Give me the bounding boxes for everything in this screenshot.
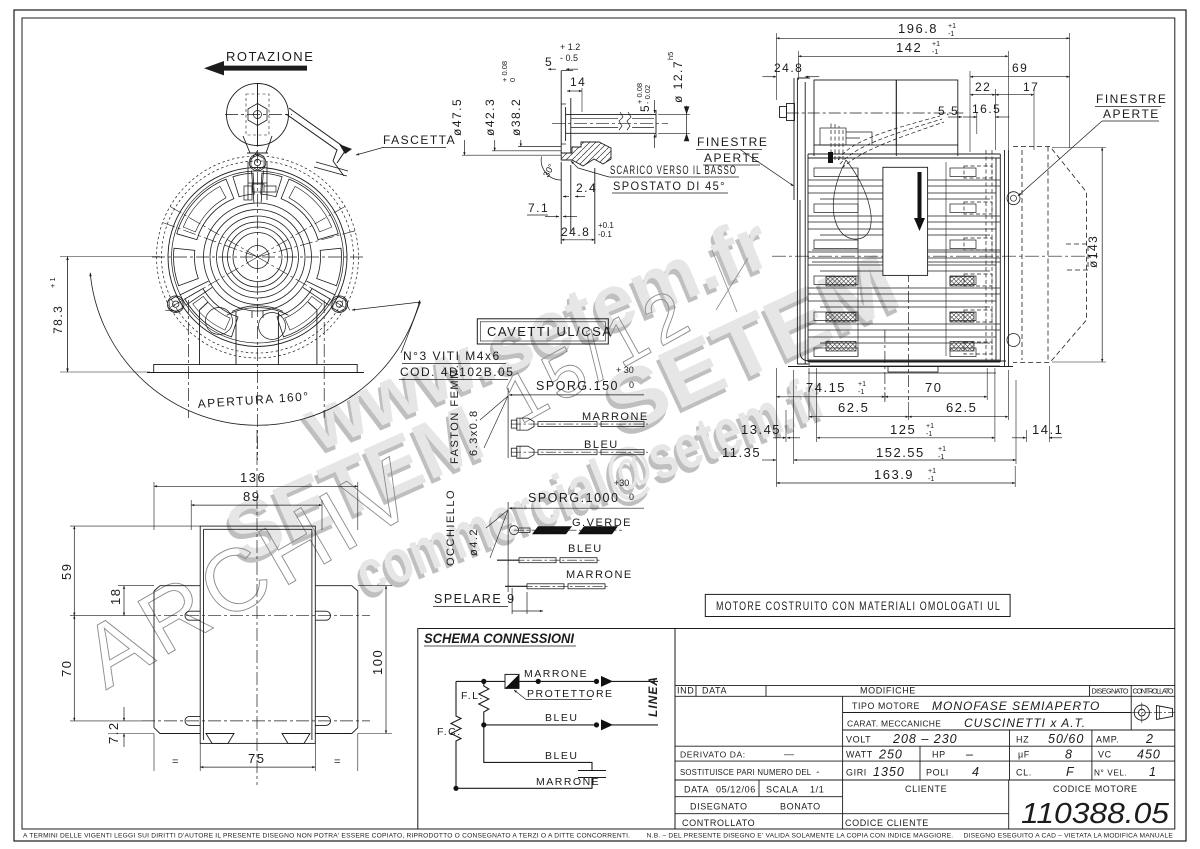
capacitor C1 top circle [227, 84, 353, 177]
svg-text:2: 2 [1145, 732, 1154, 746]
svg-text:125: 125 [890, 422, 916, 437]
svg-text:89: 89 [243, 489, 260, 504]
svg-text:-1: -1 [932, 49, 938, 56]
extension lines top dims [776, 33, 1069, 152]
svg-text:AMP.: AMP. [1096, 735, 1119, 745]
capacitor bracket to motor [243, 136, 272, 153]
base view body [154, 526, 358, 743]
svg-text:DISEGNATO: DISEGNATO [1092, 687, 1129, 696]
svg-text:CARAT. MECCANICHE: CARAT. MECCANICHE [847, 719, 941, 729]
svg-text:IND: IND [677, 686, 694, 696]
white rect window with arrow [883, 167, 928, 275]
svg-text:62.5: 62.5 [838, 400, 869, 415]
svg-text:FINESTRE: FINESTRE [1096, 92, 1167, 106]
svg-text:136: 136 [240, 470, 266, 485]
svg-text:-1: -1 [858, 389, 864, 396]
svg-text:-: - [816, 767, 820, 778]
watermark commercial@setem.fr [342, 362, 838, 615]
svg-text:-0.1: -0.1 [598, 230, 612, 239]
svg-text:ø143: ø143 [1086, 235, 1100, 268]
front screw [1007, 192, 1020, 205]
svg-text:=: = [334, 756, 340, 768]
svg-text:4: 4 [972, 765, 980, 779]
line arrows [601, 676, 613, 731]
svg-text:HZ: HZ [1016, 735, 1029, 745]
svg-text:MARRONE: MARRONE [524, 668, 588, 680]
svg-text:F: F [1066, 765, 1075, 779]
extension lines bottom dims [776, 366, 1049, 487]
stator fins [808, 162, 1000, 373]
cable bundle dashed [831, 116, 944, 168]
svg-text:+1: +1 [948, 23, 956, 30]
svg-text:ø38.2: ø38.2 [509, 98, 523, 136]
svg-text:HP: HP [932, 750, 946, 760]
svg-text:MARRONE: MARRONE [536, 776, 600, 788]
svg-text:SPORG.1000: SPORG.1000 [528, 491, 619, 505]
svg-text:SPOSTATO DI 45°: SPOSTATO DI 45° [613, 179, 726, 193]
svg-text:WATT: WATT [846, 750, 873, 760]
side view rear frame [780, 78, 1014, 372]
title block values italic [783, 699, 1161, 779]
svg-text:ø42.3: ø42.3 [483, 98, 497, 136]
schema connessioni box [418, 629, 675, 830]
svg-text:70: 70 [925, 380, 942, 395]
top screw bracket from capacitor [244, 162, 276, 200]
svg-text:59: 59 [59, 563, 74, 580]
svg-text:SOSTITUISCE PARI NUMERO DEL: SOSTITUISCE PARI NUMERO DEL [680, 768, 812, 777]
svg-text:+0.1: +0.1 [598, 221, 614, 230]
svg-text:78.3: 78.3 [51, 305, 65, 334]
junction dots [481, 679, 486, 684]
svg-text:16.5: 16.5 [972, 102, 1001, 116]
left wing [154, 586, 200, 734]
apertura 160 arc [90, 273, 420, 425]
svg-text:17: 17 [1023, 80, 1039, 94]
capacitor C [578, 771, 606, 778]
svg-text:N°3 VITI M4x6: N°3 VITI M4x6 [403, 349, 501, 363]
wire bleu mid [484, 724, 598, 726]
svg-text:1350: 1350 [873, 765, 905, 779]
svg-text:BLEU: BLEU [545, 750, 578, 762]
base plate front view [154, 365, 358, 373]
svg-text:h5: h5 [666, 52, 675, 60]
svg-text:FASTON FEMM.: FASTON FEMM. [449, 364, 461, 464]
leader line to screws [401, 302, 421, 353]
svg-text:DERIVATO DA:: DERIVATO DA: [680, 750, 746, 760]
svg-text:BONATO: BONATO [780, 802, 821, 812]
svg-text:+1: +1 [926, 423, 934, 430]
center lines front view [152, 84, 364, 460]
wire marrone top [456, 680, 598, 682]
svg-text:-1: -1 [948, 31, 954, 38]
svg-text:163.9: 163.9 [874, 467, 914, 482]
svg-text:14: 14 [570, 75, 586, 89]
svg-text:VC: VC [1098, 750, 1112, 760]
svg-text:7.2: 7.2 [106, 721, 121, 744]
svg-text:62.5: 62.5 [946, 400, 977, 415]
svg-text:MODIFICHE: MODIFICHE [860, 686, 916, 696]
svg-text:BLEU: BLEU [584, 439, 619, 451]
watermark SETEM left [209, 388, 497, 584]
svg-text:F.C.: F.C. [437, 726, 462, 738]
radial section lines [161, 206, 357, 309]
left branch F.C. [451, 681, 461, 788]
svg-text:11.35: 11.35 [722, 445, 761, 460]
svg-text:DISEGNATO: DISEGNATO [690, 802, 748, 812]
svg-text:18: 18 [108, 588, 123, 605]
svg-text:FINESTRE: FINESTRE [697, 135, 768, 149]
vertical centerlines [884, 330, 886, 402]
right wing [315, 586, 358, 734]
watermark www.setem.fr [209, 200, 914, 614]
svg-text:APERTURA 160°: APERTURA 160° [197, 389, 310, 411]
svg-text:SCHEMA CONNESSIONI: SCHEMA CONNESSIONI [424, 631, 574, 646]
svg-text:F.L.: F.L. [461, 690, 484, 702]
svg-text:SPELARE 9: SPELARE 9 [434, 592, 516, 606]
svg-text:+1: +1 [932, 41, 940, 48]
bleu to capacitor [484, 725, 592, 771]
svg-text:450: 450 [1137, 748, 1161, 762]
svg-text:=: = [172, 756, 178, 768]
svg-text:05/12/06: 05/12/06 [716, 785, 756, 795]
svg-text:8: 8 [1065, 748, 1073, 762]
extension lines base view [70, 482, 392, 771]
svg-text:MONOFASE SEMIAPERTO: MONOFASE SEMIAPERTO [932, 699, 1100, 713]
svg-text:22: 22 [975, 80, 991, 94]
svg-text:ROTAZIONE: ROTAZIONE [226, 49, 314, 64]
svg-text:7.1: 7.1 [528, 201, 549, 215]
svg-text:FASCETTA: FASCETTA [383, 133, 456, 147]
svg-text:24.8: 24.8 [774, 61, 803, 75]
MOTORE COSTRUITO box [705, 594, 1010, 616]
shaft outline [566, 107, 656, 141]
svg-text:250: 250 [878, 748, 903, 762]
svg-text:208 – 230: 208 – 230 [892, 732, 958, 746]
svg-text:MARRONE: MARRONE [566, 569, 633, 581]
svg-text:5.5: 5.5 [938, 104, 959, 118]
watermark SETEM right [586, 235, 914, 457]
svg-text:OCCHIELLO: OCCHIELLO [445, 489, 457, 566]
svg-text:DATA: DATA [684, 785, 709, 795]
svg-text:DATA: DATA [702, 686, 727, 696]
svg-text:2.4: 2.4 [576, 181, 597, 195]
svg-text:SCARICO VERSO IL BASSO: SCARICO VERSO IL BASSO [610, 165, 737, 177]
svg-text:196.8: 196.8 [898, 21, 938, 36]
svg-text:24.8: 24.8 [561, 225, 590, 239]
front view stator vent slots [177, 179, 234, 240]
svg-text:+1: +1 [938, 446, 946, 453]
svg-text:13.45: 13.45 [741, 422, 781, 437]
center line side view [772, 255, 1098, 257]
svg-text:1/1: 1/1 [810, 785, 824, 795]
base view centerlines [142, 430, 370, 785]
shaft detail section [561, 71, 656, 244]
svg-text:100: 100 [370, 649, 385, 675]
svg-text:+ 30: + 30 [616, 365, 634, 375]
svg-text:70: 70 [59, 660, 74, 677]
front vent dashed region [964, 150, 992, 362]
svg-text:74.15: 74.15 [806, 380, 846, 395]
svg-text:+ 1: + 1 [48, 277, 57, 288]
svg-text:5: 5 [545, 55, 553, 69]
wing slots [185, 611, 200, 620]
svg-text:SCALA: SCALA [766, 785, 799, 795]
svg-text:CODICE MOTORE: CODICE MOTORE [1053, 784, 1138, 794]
fascetta band clamp [286, 108, 345, 163]
watermark outline ARCHIV 15/12 [66, 250, 748, 706]
svg-text:APERTE: APERTE [1103, 107, 1160, 121]
title block labels [677, 686, 1174, 829]
svg-text:TIPO MOTORE: TIPO MOTORE [852, 701, 920, 711]
rotor window circles [206, 308, 233, 335]
dimension 78.3 +1 [60, 257, 160, 373]
CAVETTI UL/CSA box [477, 319, 608, 344]
title block grid [675, 629, 1175, 830]
motor feet front view [147, 302, 364, 373]
svg-text:75: 75 [248, 751, 265, 766]
svg-text:142: 142 [896, 40, 922, 55]
branch F.L. [479, 681, 489, 725]
flange cross-section hatched [561, 142, 611, 166]
base foot side view [800, 200, 1006, 361]
svg-text:MOTORE COSTRUITO CON MATERIALI: MOTORE COSTRUITO CON MATERIALI OMOLOGATI… [716, 601, 1001, 613]
svg-text:μF: μF [1018, 750, 1030, 760]
svg-text:GIRI: GIRI [846, 768, 867, 778]
svg-text:ø 12.7: ø 12.7 [671, 60, 685, 103]
svg-text:CLIENTE: CLIENTE [905, 784, 947, 794]
svg-text:110388.05: 110388.05 [1021, 798, 1170, 830]
svg-text:CAVETTI UL/CSA: CAVETTI UL/CSA [487, 324, 613, 339]
svg-text:69: 69 [1012, 61, 1028, 75]
svg-text:14.1: 14.1 [1032, 422, 1063, 437]
svg-text:-1: -1 [928, 476, 934, 483]
svg-text:+30: +30 [614, 478, 629, 488]
protettore symbol [505, 674, 519, 688]
svg-text:VOLT: VOLT [846, 735, 871, 745]
svg-text:CODICE CLIENTE: CODICE CLIENTE [845, 818, 929, 828]
svg-text:- 0.5: - 0.5 [560, 53, 578, 63]
svg-text:152.55: 152.55 [876, 445, 925, 460]
svg-text:5: 5 [638, 104, 652, 112]
svg-text:A TERMINI DELLE VIGENTI LEGGI: A TERMINI DELLE VIGENTI LEGGI SUI DIRITT… [23, 833, 1173, 840]
svg-text:BLEU: BLEU [568, 543, 603, 555]
svg-text:BLEU: BLEU [545, 712, 578, 724]
body outline [808, 154, 1000, 362]
svg-text:0: 0 [629, 492, 634, 502]
svg-text:+1: +1 [928, 468, 936, 475]
svg-text:+1: +1 [858, 381, 866, 388]
svg-text:–: – [965, 748, 974, 762]
bottom feet tabs [206, 734, 310, 744]
svg-text:50/60: 50/60 [1048, 732, 1084, 746]
svg-text:CUSCINETTI x A.T.: CUSCINETTI x A.T. [964, 716, 1086, 730]
svg-text:SPORG.150: SPORG.150 [536, 379, 619, 393]
svg-text:30°: 30° [541, 162, 557, 179]
svg-text:CONTROLLATO: CONTROLLATO [1133, 687, 1174, 696]
rear bolt [787, 104, 795, 121]
projection symbol [1132, 703, 1176, 723]
front view motor body outer circles [168, 168, 347, 347]
svg-text:-1: -1 [926, 431, 932, 438]
svg-text:- 0.02: - 0.02 [643, 85, 652, 104]
svg-text:PROTETTORE: PROTETTORE [527, 688, 614, 700]
svg-text:ø4.2: ø4.2 [468, 528, 480, 556]
svg-text:LINEA: LINEA [646, 676, 660, 717]
svg-text:0: 0 [508, 78, 517, 82]
shaft through body [812, 250, 1000, 262]
svg-text:POLI: POLI [926, 768, 949, 778]
svg-text:—: — [783, 750, 795, 761]
dashed fan cover [1013, 147, 1088, 363]
svg-text:CONTROLLATO: CONTROLLATO [682, 818, 755, 828]
svg-text:ø47.5: ø47.5 [450, 98, 464, 136]
svg-text:+ 1.2: + 1.2 [560, 42, 580, 52]
terminal box [814, 80, 896, 145]
svg-text:CL.: CL. [1016, 768, 1032, 778]
svg-text:1: 1 [1149, 765, 1157, 779]
svg-text:N° VEL.: N° VEL. [1094, 769, 1127, 778]
svg-text:0: 0 [629, 380, 634, 390]
front view inner concentric circles [246, 246, 269, 269]
svg-text:6.3x0.8: 6.3x0.8 [468, 409, 480, 456]
screws V1 V2 V3 with clamp arms [165, 151, 349, 313]
